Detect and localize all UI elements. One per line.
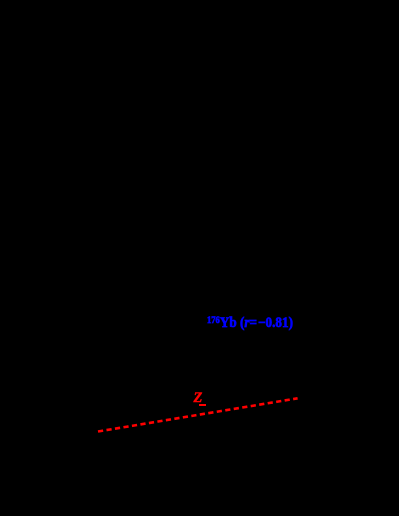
label Z: [194, 391, 203, 405]
annotation 176Yb (r = -0.81): [207, 314, 293, 331]
subscript dash under Z: [199, 404, 206, 406]
wire: red dashed trend line: [98, 398, 298, 431]
